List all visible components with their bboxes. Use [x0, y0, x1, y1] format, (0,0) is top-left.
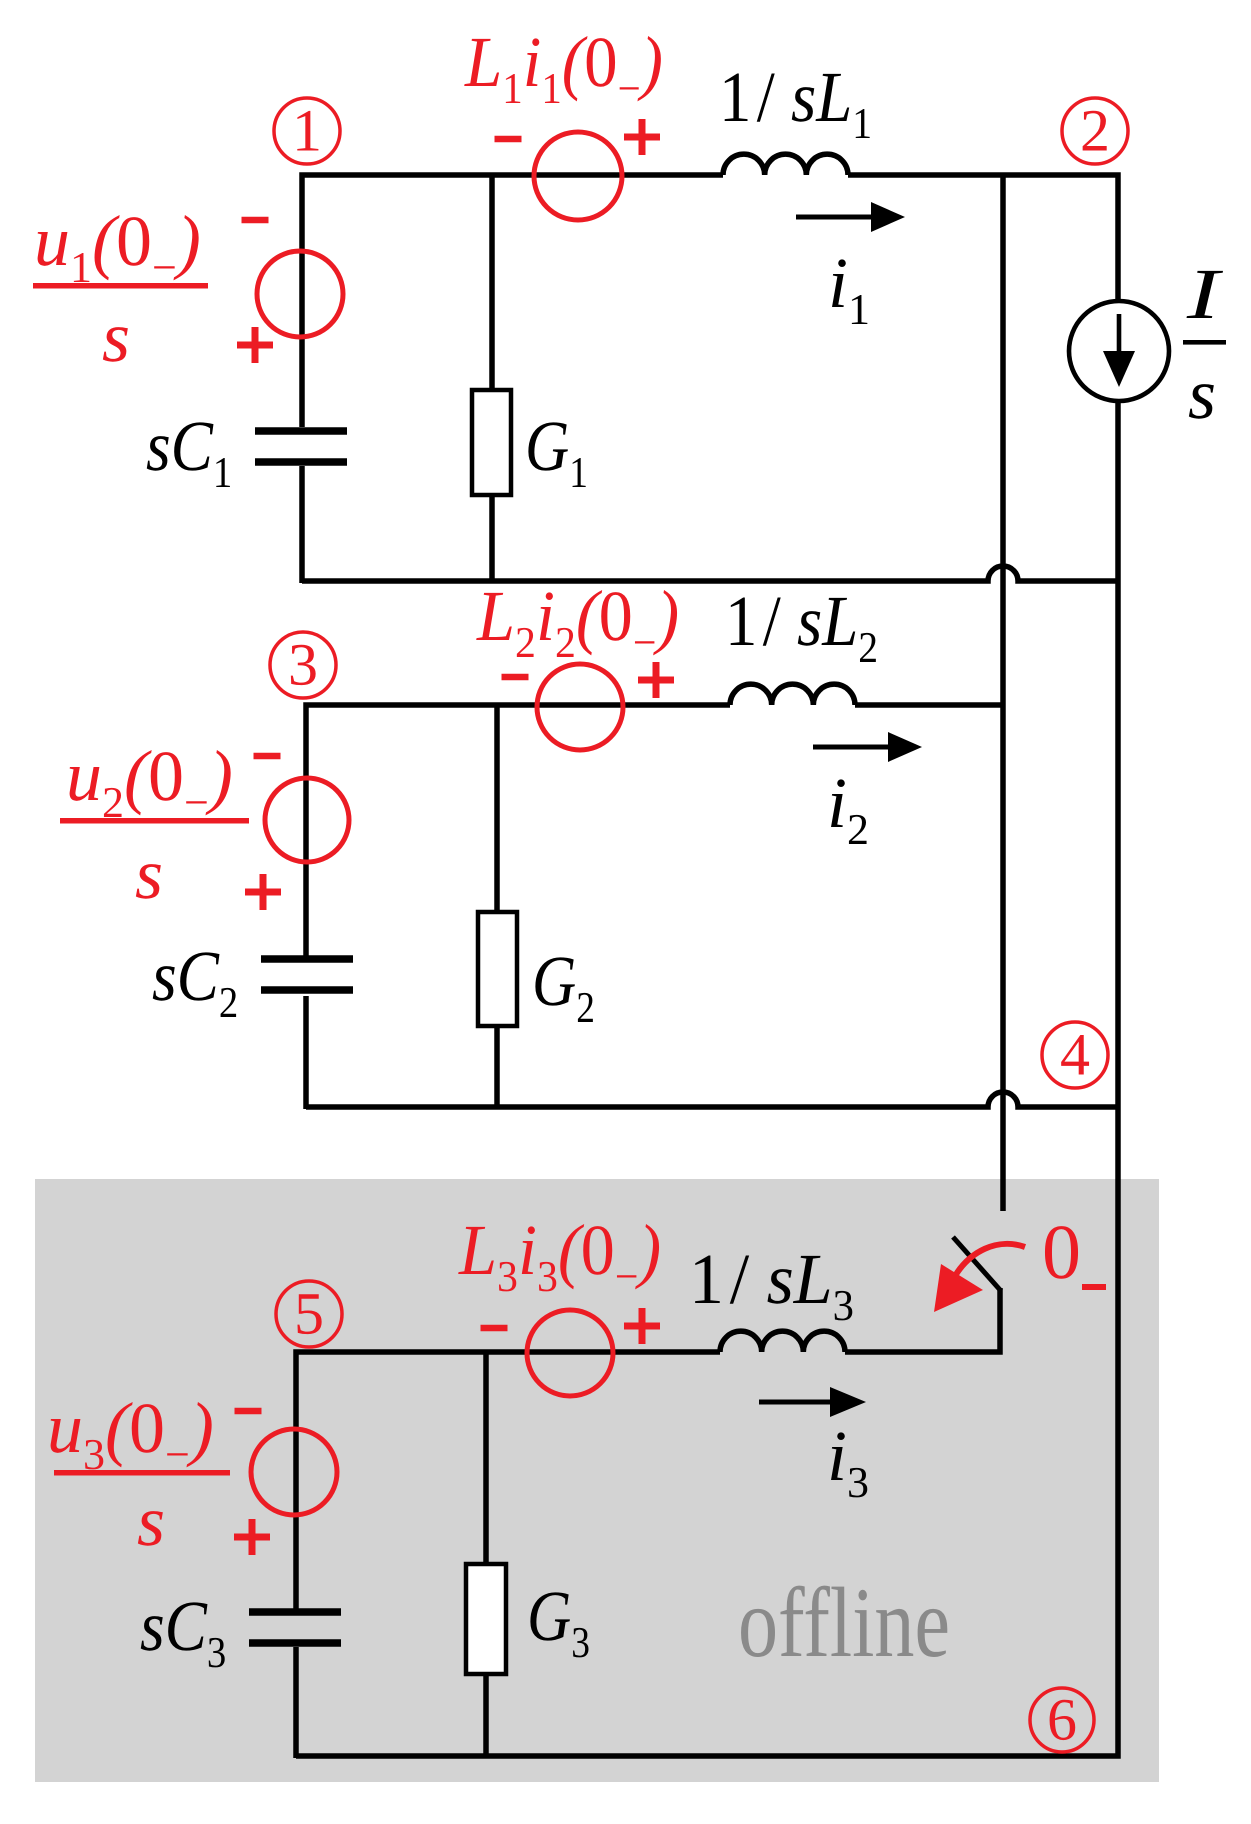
wire: capacitor sC2 bottom stub	[303, 996, 309, 1109]
current arrow i1	[796, 215, 873, 220]
label 1/sL3	[689, 1239, 854, 1330]
svg-text:5: 5	[294, 1281, 324, 1347]
minus of L2i2 source	[502, 674, 529, 681]
label i2	[827, 763, 869, 854]
svg-text:1 / sL2​: 1 / sL2​	[725, 581, 878, 672]
svg-text:I: I	[1185, 254, 1223, 334]
wire: loop2 left vertical + top wire to inductor L2	[306, 705, 730, 957]
wire: loop3 left vertical + top wire to inductor L3	[296, 1352, 720, 1610]
inductor 1/sL1	[723, 154, 848, 175]
wire: capacitor sC1 bottom stub	[299, 466, 305, 583]
node 2	[1062, 98, 1128, 164]
node 3	[270, 632, 336, 698]
plus of u1 source	[237, 327, 273, 363]
label G2	[532, 941, 595, 1032]
resistor G1 box	[472, 390, 511, 495]
voltage source circle L3i3(0-)	[527, 1310, 613, 1396]
svg-text:s: s	[102, 297, 130, 377]
node 1	[274, 98, 340, 164]
wire: G1 branch top stub	[489, 175, 495, 392]
wire: loop1 bottom with hop over mid vertical	[302, 566, 1118, 581]
svg-text:2: 2	[1080, 98, 1110, 164]
svg-text:offline: offline	[738, 1567, 950, 1678]
svg-text:1: 1	[292, 98, 322, 164]
minus of u1 source	[242, 217, 269, 224]
svg-text:1 / sL3​: 1 / sL3​	[689, 1239, 854, 1330]
resistor G3 box	[466, 1564, 506, 1674]
label sC2	[152, 936, 238, 1027]
wire: top wire right segment, right vertical down to node6 bottom, bottom wire3	[296, 175, 1118, 1756]
plus of L1i1 source	[624, 119, 660, 155]
svg-text:s: s	[135, 834, 163, 914]
voltage source circle u1(0-)/s	[257, 251, 343, 337]
label L2i2(0-)	[476, 576, 679, 667]
plus of u2 source	[245, 874, 281, 910]
inductor 1/sL2	[730, 684, 855, 705]
minus of u2 source	[254, 753, 281, 760]
voltage source circle L2i2(0-)	[537, 664, 623, 750]
plus of u3 source	[234, 1519, 270, 1555]
node 4	[1042, 1022, 1108, 1088]
wire: capacitor sC3 bottom stub	[293, 1647, 299, 1758]
wire: G1 branch bottom stub	[489, 493, 495, 581]
svg-text:s: s	[137, 1481, 165, 1561]
capacitor sC1	[255, 427, 347, 435]
label 1/sL2	[725, 581, 878, 672]
wire: G2 branch top stub	[494, 705, 500, 914]
capacitor sC2	[261, 955, 353, 963]
wire: loop1 left vertical + top wire to inductor L1	[302, 175, 723, 427]
label i3	[827, 1416, 869, 1507]
voltage source circle u2(0-)/s	[265, 778, 349, 862]
label sC1	[146, 406, 232, 497]
wire: G2 branch bottom stub	[494, 1024, 500, 1107]
label I/s of current source	[1185, 254, 1223, 334]
minus of L1i1 source	[495, 136, 522, 143]
wire: G3 branch bottom stub	[483, 1672, 489, 1756]
label sC3	[140, 1586, 226, 1677]
voltage source circle u3(0-)/s	[251, 1429, 337, 1515]
plus of L2i2 source	[638, 662, 674, 698]
switch blade (open)	[953, 1237, 1001, 1291]
node 6	[1030, 1688, 1094, 1752]
wire: loop3 top right segment + switch lower contact vertical	[845, 1288, 1000, 1352]
wire: loop2 bottom with hop over mid vertical	[306, 1092, 1118, 1107]
svg-text:s: s	[1188, 354, 1216, 434]
plus of L3i3 source	[624, 1308, 660, 1344]
label 1/sL1	[719, 57, 872, 148]
svg-text:4: 4	[1060, 1022, 1090, 1088]
wire: mid vertical from top wire to switch contact	[1000, 175, 1006, 1211]
svg-text:6: 6	[1047, 1687, 1077, 1753]
wire: loop2 top right segment to mid vertical	[855, 702, 1003, 708]
svg-text:0: 0	[1042, 1208, 1081, 1295]
label G3	[527, 1576, 590, 1667]
resistor G2 box	[478, 912, 517, 1026]
capacitor sC3	[249, 1608, 341, 1616]
node 5	[276, 1281, 342, 1347]
wire: G3 branch top stub	[483, 1352, 489, 1566]
voltage source circle L1i1(0-)	[534, 132, 622, 220]
label G1	[525, 406, 588, 497]
current source I/s	[1069, 301, 1169, 401]
minus of L3i3 source	[481, 1325, 508, 1332]
svg-text:3: 3	[288, 632, 318, 698]
inductor 1/sL3	[720, 1331, 845, 1352]
label L3i3(0-)	[458, 1210, 661, 1301]
minus of u3 source	[235, 1408, 262, 1415]
switch opening red arrow	[950, 1244, 1025, 1285]
offline region box	[35, 1179, 1159, 1782]
svg-text:1 / sL1​: 1 / sL1​	[719, 57, 872, 148]
label i1	[828, 243, 870, 334]
current arrow i2	[813, 745, 890, 750]
current arrow i3	[759, 1400, 832, 1405]
label L1i1(0-)	[464, 22, 663, 113]
